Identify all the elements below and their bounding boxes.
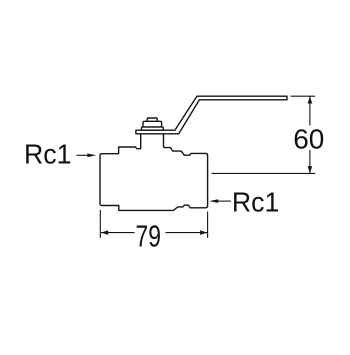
dimension 79: label [135,224,166,247]
arrow Rc1 right [218,200,232,202]
stem nut [143,121,162,127]
stem cap [147,118,157,121]
handle (base plate + bent lever) [136,96,287,134]
dimension 60: arrowheads [308,96,313,103]
valve body outline [100,134,208,211]
dimension 60: label [295,126,323,151]
stem flange step [142,127,164,130]
svg-text:Rc1: Rc1 [232,186,279,217]
svg-text:Rc1: Rc1 [24,138,71,169]
dimension 79: extension lines [100,210,207,238]
svg-text:60: 60 [293,123,324,154]
dimension 79: arrowheads [101,230,108,235]
svg-text:79: 79 [135,219,160,253]
arrow Rc1 left [77,154,90,156]
dimension 60: extension lines [212,96,316,173]
